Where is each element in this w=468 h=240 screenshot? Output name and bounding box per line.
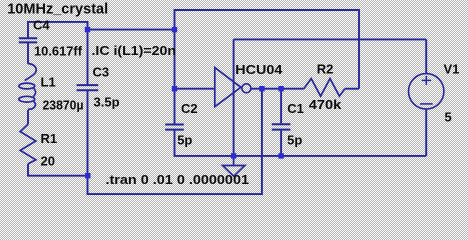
resistor R2 xyxy=(304,79,345,97)
wire top rail xyxy=(175,10,360,89)
svg-text:23870µ: 23870µ xyxy=(43,97,84,112)
V1 plus sign xyxy=(422,76,431,85)
wire C3 bottom lead xyxy=(87,91,89,176)
svg-text:V1: V1 xyxy=(444,62,460,77)
wire inverter output row xyxy=(251,88,304,90)
node inverter input xyxy=(172,86,177,91)
wire C4 top riser and rail to C3 tap xyxy=(28,22,88,38)
wire input vertical down to C2 xyxy=(174,30,176,124)
node C1 top tap xyxy=(278,86,283,91)
wire V1 top lead xyxy=(425,39,427,73)
wire C1 bottom lead xyxy=(280,131,282,156)
resistor R1 xyxy=(20,124,36,164)
node junction squares xyxy=(85,27,284,179)
wire L1 to R1 lead xyxy=(27,110,29,125)
wire C4 to L1 lead xyxy=(27,43,29,64)
capacitor C3 xyxy=(77,85,99,90)
node input riser top xyxy=(172,27,177,32)
svg-text:5: 5 xyxy=(445,110,452,125)
svg-text:R2: R2 xyxy=(317,61,334,76)
svg-text:C4: C4 xyxy=(33,17,50,32)
capacitor C2 xyxy=(165,125,184,130)
wire C1 top lead xyxy=(280,89,282,124)
svg-text:10MHz_crystal: 10MHz_crystal xyxy=(7,1,108,18)
svg-text:5p: 5p xyxy=(177,132,192,147)
wire R2 right lead xyxy=(345,88,359,90)
V1 minus sign xyxy=(420,103,433,105)
voltage source V1 xyxy=(409,74,444,109)
ground xyxy=(223,156,245,176)
svg-text:20: 20 xyxy=(41,153,55,168)
wire bottom feedback rail xyxy=(88,89,262,194)
wire Vplus rail y39 xyxy=(234,38,427,40)
wire vertical through inverter to ground xyxy=(233,39,235,155)
svg-text:.IC i(L1)=20n: .IC i(L1)=20n xyxy=(92,43,177,58)
wire C2 bottom lead and ground rail y156 xyxy=(175,130,427,156)
svg-text:R1: R1 xyxy=(41,131,58,146)
wire node row y29.6 to input riser xyxy=(88,29,175,31)
svg-text:HCU04: HCU04 xyxy=(235,62,283,77)
svg-text:C1: C1 xyxy=(287,101,304,116)
wire R1 bottom lead to node xyxy=(28,164,88,176)
svg-text:5p: 5p xyxy=(287,132,302,147)
op-amp U1 inverter triangle xyxy=(215,68,241,107)
node C1 bottom tap xyxy=(278,153,283,158)
capacitor C4 xyxy=(19,38,37,42)
svg-text:.tran 0 .01 0 .0000001: .tran 0 .01 0 .0000001 xyxy=(106,172,250,187)
svg-text:C3: C3 xyxy=(93,65,110,80)
wire C3 top lead xyxy=(87,30,89,85)
svg-text:3.5p: 3.5p xyxy=(94,94,120,109)
node ground junction xyxy=(231,153,236,158)
wire V1 bottom lead xyxy=(425,109,427,156)
inductor L1 xyxy=(19,64,36,110)
svg-text:C2: C2 xyxy=(181,101,198,116)
node inverter output xyxy=(259,86,264,91)
svg-text:470k: 470k xyxy=(309,97,342,112)
node crystal bottom xyxy=(85,173,90,178)
svg-text:10.617ff: 10.617ff xyxy=(34,44,83,59)
inverter output bubble xyxy=(242,84,251,93)
node crystal top / C3 tap xyxy=(85,27,90,32)
capacitor C1 xyxy=(272,124,291,129)
svg-text:L1: L1 xyxy=(41,75,56,90)
wire inverter input stub xyxy=(175,88,215,90)
